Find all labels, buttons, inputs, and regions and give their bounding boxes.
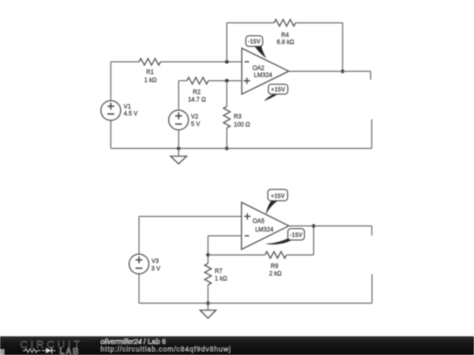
wire bottom rail right stub up	[371, 119, 373, 148]
svg-text:OA5: OA5	[253, 219, 266, 225]
resistor R9	[265, 252, 287, 278]
node D (R3 bottom)	[225, 147, 229, 151]
wire V3 to op-amp noninverting input	[139, 215, 242, 217]
CircuitLab logo diode	[42, 348, 56, 354]
resistor R7	[205, 255, 228, 303]
wire V2 bottom vertical	[178, 130, 180, 148]
svg-text:V3: V3	[152, 259, 160, 265]
resistor R4	[274, 20, 296, 47]
wire feedback up to output	[313, 226, 315, 255]
svg-text:R7: R7	[215, 269, 223, 275]
CircuitLab logo resistor squiggle	[23, 349, 41, 353]
wire inverting input left	[208, 235, 242, 237]
wire R1 to op-amp inverting input	[161, 61, 242, 63]
svg-text:R2: R2	[193, 90, 201, 96]
svg-text:1 kΩ: 1 kΩ	[144, 78, 157, 84]
node G (output feedback junction)	[312, 224, 316, 228]
svg-text:+15V: +15V	[271, 194, 285, 200]
wire feedback right vertical down	[342, 23, 344, 72]
footer bar	[0, 336, 474, 355]
svg-text:6.8 kΩ: 6.8 kΩ	[277, 40, 295, 46]
node E (V2 ground junction)	[177, 147, 181, 151]
wire V3 top vertical	[138, 216, 140, 254]
svg-text:OA2: OA2	[252, 66, 265, 72]
svg-text:14.7 Ω: 14.7 Ω	[188, 97, 206, 103]
svg-text:LAB: LAB	[60, 347, 80, 355]
svg-text:R4: R4	[281, 33, 289, 39]
wire bottom rail right stub up	[371, 274, 373, 303]
svg-text:2 kΩ: 2 kΩ	[269, 272, 282, 278]
node C (R2/R3/+input)	[225, 79, 229, 83]
voltage source V1	[101, 101, 138, 121]
wire output stub down	[370, 71, 372, 80]
resistor R1	[139, 59, 161, 85]
wire feedback vertical up	[226, 23, 228, 62]
wire R4 to right corner	[296, 22, 343, 24]
wire V1 top vertical	[110, 62, 112, 101]
op-amp OA2	[242, 48, 289, 94]
node A (feedback tap)	[225, 60, 229, 64]
wire output stub down	[371, 226, 373, 236]
wire top left horizontal to R1	[111, 61, 139, 63]
node F (R7/R9 junction)	[206, 253, 210, 257]
node H (R7 bottom ground junction)	[206, 301, 210, 305]
wire V2 top vertical	[178, 81, 180, 110]
wire feedback top horizontal	[227, 22, 274, 24]
svg-text:R1: R1	[146, 70, 154, 76]
voltage source V2	[169, 110, 200, 130]
svg-text:olivermiller24 / Lab 6: olivermiller24 / Lab 6	[101, 339, 166, 346]
wire bottom rail lower circuit	[139, 302, 372, 304]
power label -15V (OA5)	[267, 229, 305, 245]
svg-text:-15V: -15V	[290, 233, 303, 239]
svg-text:V2: V2	[191, 115, 199, 121]
footer corner chip	[0, 349, 5, 355]
wire inverting input down	[207, 236, 209, 255]
resistor R3	[224, 81, 251, 149]
power label +15V (OA5)	[266, 189, 288, 213]
svg-text:1 kΩ: 1 kΩ	[215, 277, 228, 283]
ground (top circuit)	[171, 148, 187, 164]
wire node to R9	[208, 254, 265, 256]
power label -15V (OA2)	[246, 36, 266, 58]
voltage source V3	[129, 254, 160, 274]
wire R9 right	[287, 254, 314, 256]
svg-text:R3: R3	[234, 114, 242, 120]
ground (lower circuit)	[200, 303, 216, 318]
svg-text:100 Ω: 100 Ω	[234, 122, 251, 128]
svg-text:R9: R9	[271, 264, 279, 270]
resistor R2	[187, 77, 209, 103]
svg-text:5 V: 5 V	[191, 122, 200, 128]
wire V1 bottom vertical	[110, 121, 112, 149]
svg-text:http://circuitlab.com/c84qf9dv: http://circuitlab.com/c84qf9dv8huwj	[101, 346, 232, 353]
wire V3 bottom vertical	[138, 274, 140, 303]
svg-text:-15V: -15V	[248, 40, 261, 46]
svg-text:4.5 V: 4.5 V	[124, 112, 138, 118]
wire op-amp output	[289, 70, 371, 72]
power label +15V (OA2)	[264, 84, 287, 100]
wire op-amp output	[289, 225, 372, 227]
svg-text:+15V: +15V	[271, 88, 285, 94]
svg-text:V1: V1	[124, 105, 132, 111]
svg-text:LM324: LM324	[254, 73, 273, 79]
svg-text:LM324: LM324	[255, 228, 274, 234]
svg-text:3 V: 3 V	[151, 267, 160, 273]
wire bottom rail top circuit	[111, 147, 372, 149]
op-amp OA5	[242, 202, 289, 249]
node B (output feedback junction)	[341, 70, 345, 74]
wire R2 to op-amp noninverting input	[208, 80, 241, 82]
wire V2 to R2	[179, 80, 187, 82]
